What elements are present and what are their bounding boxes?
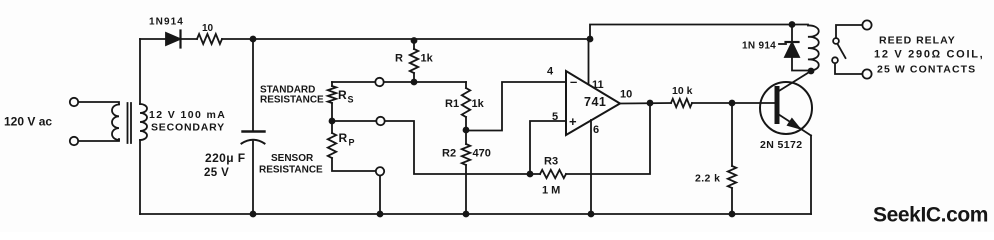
svg-text:1N 914: 1N 914 bbox=[742, 41, 776, 52]
svg-text:10 k: 10 k bbox=[672, 85, 693, 97]
reed terminal top bbox=[862, 20, 871, 29]
resistor R2 leads bbox=[465, 130, 467, 214]
resistor 2.2k leads bbox=[731, 103, 733, 214]
resistor 2.2k bbox=[728, 166, 736, 188]
diode D2 cathode bar bbox=[786, 41, 799, 43]
svg-text:1 M: 1 M bbox=[542, 185, 560, 197]
svg-text:5: 5 bbox=[552, 111, 558, 123]
transformer T1 secondary winding bbox=[140, 104, 147, 140]
reed contact small top bbox=[833, 38, 839, 44]
wire pin5 lead bbox=[530, 121, 566, 174]
svg-text:6: 6 bbox=[593, 124, 599, 136]
wire output bbox=[620, 102, 671, 105]
svg-text:12 V 290Ω COIL,: 12 V 290Ω COIL, bbox=[874, 49, 984, 61]
svg-text:R: R bbox=[395, 53, 403, 65]
transistor Q1 emitter arrow bbox=[787, 118, 800, 129]
svg-text:10: 10 bbox=[202, 23, 214, 34]
transistor Q1 base bar bbox=[775, 89, 780, 122]
reed contact small bottom bbox=[832, 57, 838, 63]
svg-text:12 V 100 mA: 12 V 100 mA bbox=[149, 109, 226, 121]
diode D1 1N914 bbox=[166, 33, 180, 45]
transistor Q1 emitter bbox=[778, 114, 811, 136]
reed switch top lead bbox=[836, 25, 863, 38]
op-amp pin6 lead bbox=[590, 120, 592, 214]
diode D2 lead bottom bbox=[792, 57, 811, 71]
resistor R2 bbox=[462, 144, 470, 165]
wire node121 horizontal bbox=[332, 121, 530, 174]
terminal 120V top bbox=[70, 98, 78, 106]
wire riser to relay rail bbox=[590, 25, 808, 40]
svg-text:R1: R1 bbox=[445, 98, 459, 110]
svg-text:470: 470 bbox=[473, 148, 491, 160]
wire primary bottom lead bbox=[78, 139, 119, 141]
junction gnd R2 bbox=[463, 211, 470, 218]
svg-text:2N 5172: 2N 5172 bbox=[760, 139, 803, 151]
resistor RS leads bbox=[331, 82, 333, 121]
capacitor C1 plates bbox=[243, 130, 265, 132]
svg-text:RESISTANCE: RESISTANCE bbox=[260, 95, 324, 106]
svg-text:1k: 1k bbox=[472, 98, 485, 110]
capacitor C1 branch lower bbox=[252, 142, 254, 215]
wire R1 bottom to pin4 bbox=[466, 82, 566, 131]
wire primary top lead bbox=[78, 102, 119, 104]
resistor R 1k bbox=[410, 49, 418, 73]
junction pin5 R3 bbox=[527, 171, 534, 178]
svg-text:RESISTANCE: RESISTANCE bbox=[259, 165, 323, 176]
svg-text:R: R bbox=[339, 131, 348, 145]
resistor 10 ohm bbox=[197, 34, 222, 44]
svg-text:R2: R2 bbox=[442, 148, 456, 160]
svg-text:25 W CONTACTS: 25 W CONTACTS bbox=[877, 64, 976, 76]
svg-text:SECONDARY: SECONDARY bbox=[151, 122, 225, 134]
label 1N914 dash bbox=[779, 43, 786, 45]
wire collector diagonal bbox=[778, 71, 811, 92]
junction diode D2 top bbox=[789, 21, 796, 28]
junction top of cap bbox=[250, 36, 257, 43]
resistor 10k bbox=[671, 99, 692, 107]
junction R1k top bbox=[411, 37, 418, 44]
junction node121 bbox=[329, 118, 336, 125]
reed terminal bottom bbox=[862, 69, 871, 78]
wire secondary lower to ground rail bbox=[139, 140, 141, 214]
relay coil L1 bbox=[808, 25, 819, 70]
transformer T1 core bbox=[128, 103, 132, 143]
diode D2 1N914 bbox=[785, 43, 799, 58]
junction gnd cap bbox=[250, 211, 257, 218]
svg-text:220μ F: 220μ F bbox=[205, 151, 245, 165]
junction gnd 2.2k bbox=[729, 211, 736, 218]
terminal standard top bbox=[375, 78, 383, 86]
svg-text:741: 741 bbox=[584, 95, 606, 109]
reed switch bottom lead bbox=[835, 63, 863, 74]
resistor RS bbox=[328, 86, 336, 103]
junction R1-R2 bbox=[463, 127, 470, 134]
junction gnd pin6 bbox=[588, 211, 595, 218]
svg-text:11: 11 bbox=[592, 79, 604, 91]
svg-text:R: R bbox=[338, 88, 347, 102]
svg-text:–: – bbox=[570, 74, 577, 89]
wire sensor terminal to ground bbox=[379, 176, 381, 215]
junction coil bottom bbox=[808, 68, 815, 75]
svg-text:120 V ac: 120 V ac bbox=[4, 115, 52, 129]
junction output bbox=[647, 100, 654, 107]
wire left vertical secondary upper bbox=[139, 39, 141, 104]
transformer T1 primary winding bbox=[112, 105, 119, 140]
resistor R1 bbox=[462, 88, 470, 117]
svg-text:SeekIC.com: SeekIC.com bbox=[873, 204, 988, 227]
capacitor C1 branch upper bbox=[252, 39, 254, 132]
svg-text:S: S bbox=[348, 95, 354, 105]
transistor Q1 circle bbox=[760, 82, 812, 134]
wire top rail to op-amp pin11 tap bbox=[222, 38, 590, 40]
svg-text:4: 4 bbox=[547, 66, 554, 78]
resistor RP bbox=[328, 133, 336, 158]
terminal 120V bottom bbox=[70, 137, 78, 145]
terminal sensor bottom bbox=[376, 167, 384, 175]
resistor R1 leads bbox=[465, 82, 467, 130]
terminal mid node bbox=[376, 117, 384, 125]
junction base bbox=[729, 100, 736, 107]
junction gnd sensor bbox=[377, 211, 384, 218]
op-amp pin11 lead bbox=[588, 39, 590, 84]
svg-text:1N914: 1N914 bbox=[149, 17, 184, 28]
diode D2 1N914 lead top bbox=[791, 25, 793, 43]
resistor R 1k leads bbox=[413, 39, 415, 82]
resistor R3 bbox=[540, 170, 566, 178]
svg-text:R3: R3 bbox=[544, 156, 558, 168]
wire top rail from secondary to diode bbox=[140, 38, 166, 40]
wire emitter to ground rail bbox=[810, 136, 812, 215]
junction pin11 rail bbox=[587, 36, 594, 43]
resistor R3 leads bbox=[530, 103, 650, 174]
junction node82 bbox=[411, 79, 418, 86]
svg-text:+: + bbox=[569, 114, 577, 129]
svg-text:P: P bbox=[349, 138, 355, 148]
svg-text:10: 10 bbox=[620, 89, 632, 101]
svg-text:25 V: 25 V bbox=[204, 167, 229, 179]
svg-text:2.2 k: 2.2 k bbox=[695, 173, 720, 185]
wire 10k to base bbox=[692, 102, 775, 104]
svg-text:1k: 1k bbox=[421, 53, 434, 65]
resistor RP leads bbox=[332, 121, 376, 171]
svg-text:SENSOR: SENSOR bbox=[271, 153, 314, 164]
ground rail bottom bbox=[140, 213, 811, 215]
wire node82 horizontal RS top bbox=[332, 81, 466, 83]
op-amp U1 741 triangle bbox=[566, 71, 620, 135]
svg-text:REED RELAY: REED RELAY bbox=[879, 35, 956, 47]
reed switch arm bbox=[838, 44, 846, 58]
